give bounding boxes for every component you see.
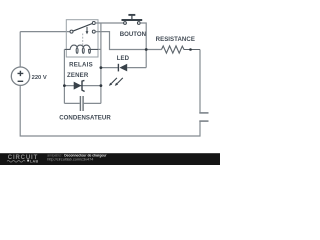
- junction dot LED return: [100, 66, 103, 69]
- coil-right jog: [98, 48, 101, 50]
- left rail: [63, 49, 65, 103]
- svg-text:RESISTANCE: RESISTANCE: [156, 36, 195, 43]
- zener diode Z1 triangle: [74, 82, 82, 90]
- LED arrow 2: [117, 78, 123, 84]
- wire: [20, 85, 200, 136]
- wire: [19, 32, 21, 67]
- connector upper foot: [199, 112, 208, 114]
- svg-text:RELAIS: RELAIS: [69, 62, 93, 69]
- svg-text:LAB: LAB: [30, 160, 39, 164]
- NC wire to button: [95, 22, 124, 24]
- svg-text:http://circuitlab.com/c3v474: http://circuitlab.com/c3v474: [47, 158, 93, 162]
- pushbutton S1: [124, 22, 127, 25]
- connector lower foot: [199, 120, 208, 122]
- relay switch arm: [73, 24, 92, 32]
- NO wire: [95, 32, 161, 50]
- LED arrow 1: [111, 78, 117, 84]
- button cap: [128, 14, 135, 16]
- minus sign: [18, 80, 24, 82]
- button stem: [131, 16, 133, 20]
- junction dot resistor right: [189, 48, 192, 51]
- right rail: [100, 23, 102, 103]
- footer bar: [0, 153, 220, 165]
- svg-text:220 V: 220 V: [32, 75, 47, 81]
- zener wire: [64, 85, 101, 87]
- svg-text:ZENER: ZENER: [67, 72, 89, 79]
- relay coil: [64, 45, 98, 53]
- zener bar: [82, 80, 85, 91]
- svg-text:CONDENSATEUR: CONDENSATEUR: [59, 114, 111, 121]
- footer logo LAB: [7, 160, 25, 162]
- svg-text:LED: LED: [117, 55, 130, 62]
- relay common pin: [70, 30, 73, 33]
- wire: [199, 50, 201, 113]
- capacitor C1 wires: [64, 102, 101, 104]
- junction dot zener right: [100, 84, 103, 87]
- relay NC pin: [92, 22, 95, 25]
- wire left loop: top wire to relay common: [20, 32, 200, 136]
- relay dashed link: [82, 34, 84, 46]
- voltage source V1 circle: [11, 67, 29, 85]
- plus sign: [18, 71, 24, 76]
- resistor R1 zigzag: [162, 46, 201, 53]
- svg-text:BOUTON: BOUTON: [120, 31, 146, 38]
- LED triangle: [119, 64, 127, 72]
- relay NO pin: [92, 30, 95, 33]
- wire: [20, 31, 70, 33]
- capacitor plates: [80, 96, 83, 111]
- LED D1 wires: [101, 67, 146, 69]
- junction dot X: [145, 48, 148, 51]
- svg-text:amipabici : Deconnecteur de ch: amipabici : Deconnecteur de chargeur: [47, 153, 107, 157]
- LED cathode bar: [117, 64, 119, 72]
- relay arm arrow: [86, 27, 88, 32]
- relay box U1: [66, 20, 98, 57]
- button bar: [122, 19, 143, 21]
- button right wire down to X junction: [140, 23, 146, 68]
- junction dot zener left: [63, 84, 66, 87]
